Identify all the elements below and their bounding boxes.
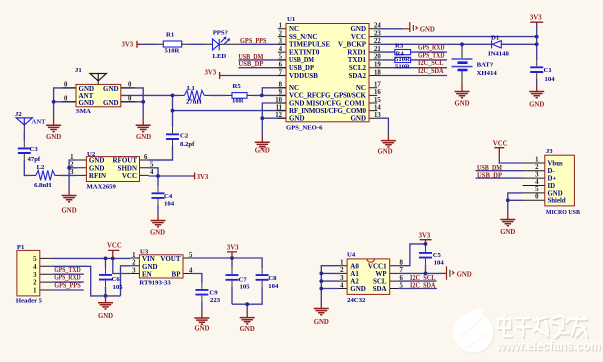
svg-text:USB_DM: USB_DM: [289, 56, 314, 64]
svg-text:1: 1: [340, 260, 344, 267]
svg-text:GPS_PPS: GPS_PPS: [54, 282, 81, 289]
svg-text:GND: GND: [62, 208, 77, 215]
svg-text:GND: GND: [377, 149, 392, 156]
svg-text:7: 7: [279, 69, 283, 76]
svg-text:3: 3: [33, 272, 37, 279]
svg-text:TXD1: TXD1: [348, 56, 367, 64]
svg-text:1: 1: [33, 288, 37, 295]
svg-text:3V3: 3V3: [530, 15, 542, 22]
svg-text:C6: C6: [112, 276, 121, 283]
svg-text:D+: D+: [548, 176, 557, 183]
svg-text:R5: R5: [233, 83, 242, 90]
svg-text:GND: GND: [548, 190, 563, 197]
svg-text:EN: EN: [142, 271, 152, 279]
svg-text:20: 20: [374, 54, 381, 61]
svg-text:SCL2: SCL2: [349, 64, 367, 72]
svg-text:223: 223: [210, 297, 221, 304]
svg-text:3V3: 3V3: [419, 233, 431, 240]
svg-text:5: 5: [400, 282, 404, 289]
svg-text:RT9193-33: RT9193-33: [139, 280, 171, 287]
svg-text:0: 0: [535, 194, 539, 201]
svg-text:12: 12: [275, 112, 282, 119]
svg-text:10R: 10R: [232, 98, 244, 105]
svg-text:105: 105: [113, 284, 124, 291]
svg-text:GND: GND: [457, 271, 472, 278]
svg-text:27nH: 27nH: [186, 99, 202, 106]
svg-text:USB_DM: USB_DM: [238, 54, 264, 61]
svg-text:GND: GND: [103, 85, 119, 93]
svg-text:8: 8: [279, 82, 283, 89]
svg-text:U1: U1: [287, 16, 295, 23]
svg-text:C8: C8: [268, 275, 277, 282]
svg-text:14: 14: [374, 104, 381, 111]
svg-text:3V3: 3V3: [205, 70, 217, 77]
svg-text:3: 3: [535, 171, 539, 178]
svg-text:4: 4: [535, 179, 539, 186]
svg-text:15: 15: [374, 97, 381, 104]
svg-text:GND: GND: [500, 229, 515, 236]
svg-text:GND: GND: [150, 230, 165, 237]
svg-text:GND: GND: [529, 102, 544, 109]
svg-text:2: 2: [132, 260, 136, 267]
svg-text:23: 23: [374, 30, 381, 37]
svg-text:4: 4: [33, 264, 37, 271]
svg-text:I2C_SDA: I2C_SDA: [418, 68, 444, 75]
svg-text:1: 1: [535, 156, 539, 163]
svg-text:7: 7: [400, 267, 404, 274]
svg-text:6: 6: [279, 62, 283, 69]
svg-text:3: 3: [340, 275, 344, 282]
svg-text:C5: C5: [433, 252, 442, 259]
svg-text:GND: GND: [454, 101, 469, 108]
svg-text:RFIN: RFIN: [89, 172, 106, 180]
svg-text:GPS_RXD: GPS_RXD: [418, 45, 445, 52]
svg-text:GPS_NEO-6: GPS_NEO-6: [286, 125, 323, 132]
svg-text:3V3: 3V3: [227, 245, 239, 252]
svg-text:24C32: 24C32: [347, 297, 366, 304]
svg-text:EXTINT0: EXTINT0: [289, 48, 320, 56]
svg-text:C3: C3: [30, 146, 39, 153]
svg-text:510R: 510R: [395, 64, 410, 71]
svg-text:I2C_SDA: I2C_SDA: [410, 283, 436, 290]
svg-text:5: 5: [33, 256, 37, 263]
svg-text:GND: GND: [314, 319, 329, 326]
svg-text:9: 9: [279, 89, 283, 96]
svg-text:2: 2: [70, 162, 74, 169]
svg-text:USB_DP: USB_DP: [289, 64, 315, 72]
svg-text:1: 1: [279, 23, 283, 30]
svg-text:0: 0: [128, 82, 132, 89]
svg-text:C1: C1: [544, 67, 552, 74]
svg-text:P1: P1: [17, 244, 24, 251]
svg-text:RFOUT: RFOUT: [113, 157, 138, 165]
svg-text:R1: R1: [166, 32, 174, 39]
svg-text:D1: D1: [491, 35, 499, 42]
svg-text:6: 6: [144, 154, 148, 161]
svg-text:6.8nH: 6.8nH: [34, 182, 52, 189]
svg-text:NC: NC: [289, 25, 299, 33]
svg-text:VCC: VCC: [122, 172, 137, 180]
svg-text:8: 8: [400, 260, 404, 267]
svg-text:24: 24: [374, 23, 381, 30]
svg-text:ANT: ANT: [32, 119, 47, 126]
svg-text:2: 2: [279, 30, 283, 37]
svg-text:5: 5: [150, 162, 154, 169]
svg-text:L2: L2: [37, 164, 45, 171]
svg-text:XH414: XH414: [477, 70, 498, 77]
svg-text:GPS_PPS: GPS_PPS: [240, 38, 267, 45]
svg-text:C4: C4: [164, 193, 173, 200]
svg-text:Vbus: Vbus: [548, 160, 563, 167]
svg-text:GPS_TXD: GPS_TXD: [418, 52, 445, 59]
svg-text:GPS_TXD: GPS_TXD: [54, 267, 81, 274]
svg-text:21: 21: [374, 46, 381, 53]
svg-text:4: 4: [279, 46, 283, 53]
svg-text:1: 1: [132, 252, 136, 259]
svg-text:V_BCKP: V_BCKP: [338, 41, 367, 49]
svg-text:4: 4: [340, 282, 344, 289]
svg-text:GND: GND: [46, 134, 61, 141]
svg-text:MAX2659: MAX2659: [87, 184, 117, 191]
svg-text:GND: GND: [420, 27, 435, 34]
svg-text:C2: C2: [180, 133, 189, 140]
svg-text:VCC: VCC: [107, 243, 122, 250]
svg-text:ID: ID: [548, 183, 556, 190]
svg-text:3: 3: [279, 38, 283, 45]
svg-text:0: 0: [64, 82, 68, 89]
svg-text:10: 10: [275, 97, 282, 104]
svg-text:GPS_RXD: GPS_RXD: [54, 275, 81, 282]
svg-text:13: 13: [374, 112, 381, 119]
svg-text:USB_DP: USB_DP: [238, 61, 263, 68]
svg-text:GND: GND: [98, 313, 113, 320]
svg-text:GND: GND: [240, 326, 255, 333]
svg-text:3V3: 3V3: [122, 42, 134, 49]
svg-text:GND: GND: [136, 134, 151, 141]
svg-text:4: 4: [150, 169, 154, 176]
svg-text:C9: C9: [209, 290, 218, 297]
svg-text:5: 5: [189, 252, 193, 259]
svg-text:VCC: VCC: [493, 141, 508, 148]
svg-text:www.elecfans.com: www.elecfans.com: [496, 339, 601, 353]
svg-text:I2C_SCL: I2C_SCL: [410, 275, 436, 282]
svg-text:5: 5: [535, 186, 539, 193]
svg-text:BP: BP: [172, 271, 182, 279]
svg-text:8.2pf: 8.2pf: [180, 141, 195, 148]
svg-text:104: 104: [268, 283, 279, 290]
svg-text:L1: L1: [187, 85, 195, 92]
svg-text:MICRO USB: MICRO USB: [546, 209, 580, 216]
svg-text:Shield: Shield: [548, 198, 566, 205]
svg-text:6: 6: [400, 275, 404, 282]
svg-text:2: 2: [340, 267, 344, 274]
svg-text:USB_DM: USB_DM: [477, 165, 503, 172]
svg-text:22: 22: [374, 38, 381, 45]
svg-text:16: 16: [374, 89, 381, 96]
svg-text:1: 1: [70, 154, 74, 161]
svg-text:USB_DP: USB_DP: [477, 172, 502, 179]
svg-text:VIN: VIN: [142, 255, 155, 263]
svg-text:GND: GND: [255, 148, 270, 155]
svg-text:GND: GND: [194, 326, 209, 333]
svg-text:J3: J3: [546, 148, 553, 155]
svg-text:J2: J2: [15, 111, 22, 118]
svg-text:17: 17: [374, 82, 381, 89]
svg-text:VOUT: VOUT: [160, 255, 180, 263]
svg-text:I2C_SCL: I2C_SCL: [418, 60, 444, 67]
svg-text:J1: J1: [75, 67, 82, 74]
svg-text:U4: U4: [347, 252, 356, 259]
svg-text:104: 104: [164, 201, 175, 208]
svg-text:SDA2: SDA2: [348, 72, 366, 80]
svg-text:19: 19: [374, 62, 381, 69]
svg-text:GND: GND: [89, 157, 105, 165]
svg-text:GND: GND: [79, 99, 95, 107]
svg-text:R3: R3: [395, 43, 404, 50]
svg-text:510R: 510R: [165, 48, 180, 55]
svg-text:D-: D-: [548, 168, 556, 175]
svg-text:104: 104: [545, 76, 556, 83]
svg-text:105: 105: [240, 284, 251, 291]
svg-text:510R: 510R: [395, 56, 410, 63]
svg-text:GND: GND: [350, 115, 366, 123]
svg-text:4: 4: [189, 267, 193, 274]
svg-text:0: 0: [64, 96, 68, 103]
svg-text:RXD1: RXD1: [347, 48, 366, 56]
svg-text:GND: GND: [103, 99, 119, 107]
svg-text:C7: C7: [239, 277, 248, 284]
svg-text:3: 3: [70, 169, 74, 176]
svg-text:2: 2: [33, 280, 37, 287]
svg-text:GND: GND: [289, 115, 305, 123]
svg-text:3V3: 3V3: [197, 174, 209, 181]
svg-text:104: 104: [434, 260, 445, 267]
svg-text:GND: GND: [350, 285, 366, 293]
svg-text:TIMEPULSE: TIMEPULSE: [289, 41, 331, 49]
svg-text:3: 3: [132, 267, 136, 274]
svg-text:LED: LED: [213, 53, 227, 60]
svg-text:0: 0: [128, 96, 132, 103]
svg-text:GND: GND: [350, 25, 366, 33]
svg-text:BAT?: BAT?: [477, 62, 494, 69]
svg-text:Header 5: Header 5: [16, 298, 43, 305]
svg-text:18: 18: [374, 69, 381, 76]
svg-text:IN4148: IN4148: [488, 51, 509, 58]
svg-text:5: 5: [279, 54, 283, 61]
svg-text:11: 11: [276, 104, 283, 111]
svg-text:VDDUSB: VDDUSB: [289, 72, 318, 80]
svg-text:2: 2: [535, 164, 539, 171]
svg-text:47pf: 47pf: [28, 156, 41, 163]
svg-text:PPS?: PPS?: [213, 30, 228, 37]
svg-text:SMA: SMA: [76, 108, 91, 115]
svg-text:SDA: SDA: [373, 285, 387, 293]
